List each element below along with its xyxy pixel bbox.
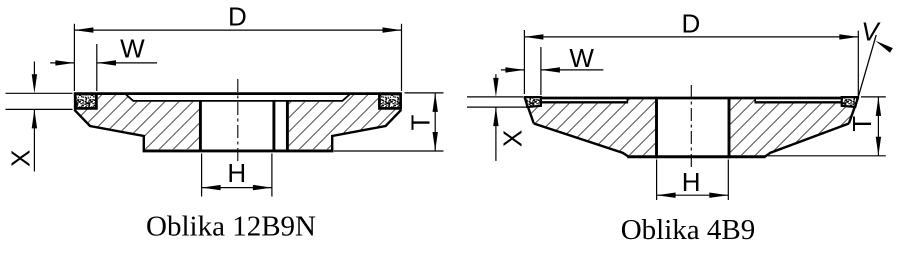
bore right edge (272, 101, 275, 151)
dimension X right: extension lines (467, 96, 523, 98)
dimension T right: extension lines (861, 96, 886, 98)
dimension V: arrow (875, 41, 893, 53)
dimension T right: line and arrows (877, 97, 879, 156)
body outline left (74, 110, 143, 151)
dimension X right: line and arrows (495, 74, 497, 78)
svg-text:D: D (228, 2, 247, 32)
slot edge line (286, 101, 289, 151)
abrasive segment right (speckled) (379, 94, 400, 108)
svg-text:H: H (682, 167, 701, 197)
abrasive underside step left (626, 98, 628, 103)
svg-text:Oblika 4B9: Oblika 4B9 (621, 214, 756, 246)
dimension X left: extension lines (6, 92, 73, 94)
outer slant edge left (524, 97, 533, 124)
recess chamfer left (125, 94, 133, 101)
taper underside left (534, 124, 629, 157)
abrasive underside line right (755, 101, 842, 103)
taper underside right (765, 124, 849, 157)
top face line (74, 92, 402, 95)
dimension W left: line and arrows (50, 62, 74, 64)
hatched body right section (730, 99, 855, 155)
abrasive segment left (speckled) (525, 97, 541, 107)
dimension D right: line and arrows (524, 36, 858, 38)
bottom face line (627, 155, 765, 158)
svg-text:H: H (227, 158, 246, 188)
outer slant edge right (849, 97, 858, 124)
svg-text:T: T (405, 114, 435, 130)
dimension W right: line and arrows (501, 69, 525, 71)
svg-text:Oblika 12B9N: Oblika 12B9N (146, 211, 316, 243)
bore left edge (199, 101, 202, 151)
dimension X left: line and arrows (33, 62, 35, 79)
dimension H left: line and arrows (202, 187, 272, 189)
abrasive underside line left (541, 101, 628, 103)
dimension V: slant line (858, 35, 876, 97)
bore right edge (728, 97, 731, 158)
bottom face line (143, 149, 334, 152)
dimension T left: line and arrows (434, 93, 436, 151)
dimension H right: line and arrows (657, 194, 729, 196)
dimension H right: extension lines (656, 160, 658, 201)
svg-text:W: W (569, 43, 594, 73)
svg-text:T: T (847, 116, 877, 132)
abrasive segment left (speckled) (75, 94, 96, 108)
recess chamfer right (342, 94, 350, 101)
body outline right (332, 110, 401, 151)
svg-text:X: X (6, 150, 36, 167)
bore left edge (655, 97, 658, 158)
dimension H left: extension lines (201, 154, 203, 197)
svg-text:X: X (498, 130, 528, 147)
recess face line (134, 100, 343, 102)
top face line (524, 97, 858, 100)
dimension D left: line and arrows (74, 29, 401, 31)
hatched body left section (527, 99, 655, 155)
dimension T left: extension lines (405, 92, 444, 94)
dimension W left: extension line (96, 44, 98, 91)
abrasive underside step right (754, 98, 756, 103)
dimension D right: extension lines (523, 30, 525, 94)
svg-text:D: D (682, 8, 701, 38)
hatched body right section (289, 95, 401, 150)
svg-text:W: W (120, 34, 145, 64)
hatched body left section (75, 95, 199, 150)
abrasive segment right (speckled) (842, 97, 858, 107)
dimension D left: extension lines (73, 24, 75, 91)
centerline (690, 85, 692, 170)
centerline (237, 79, 239, 162)
dimension W right: extension line (540, 47, 542, 95)
svg-text:V: V (861, 17, 881, 47)
